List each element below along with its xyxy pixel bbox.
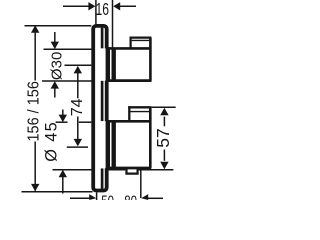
svg-text:57: 57 (153, 128, 173, 147)
svg-text:Ø30: Ø30 (49, 52, 66, 80)
svg-text:50 - 80: 50 - 80 (101, 194, 137, 200)
svg-text:Ø 45: Ø 45 (43, 122, 61, 162)
svg-text:16: 16 (96, 0, 110, 19)
svg-text:156 / 156: 156 / 156 (26, 81, 43, 142)
svg-text:74: 74 (69, 98, 86, 116)
